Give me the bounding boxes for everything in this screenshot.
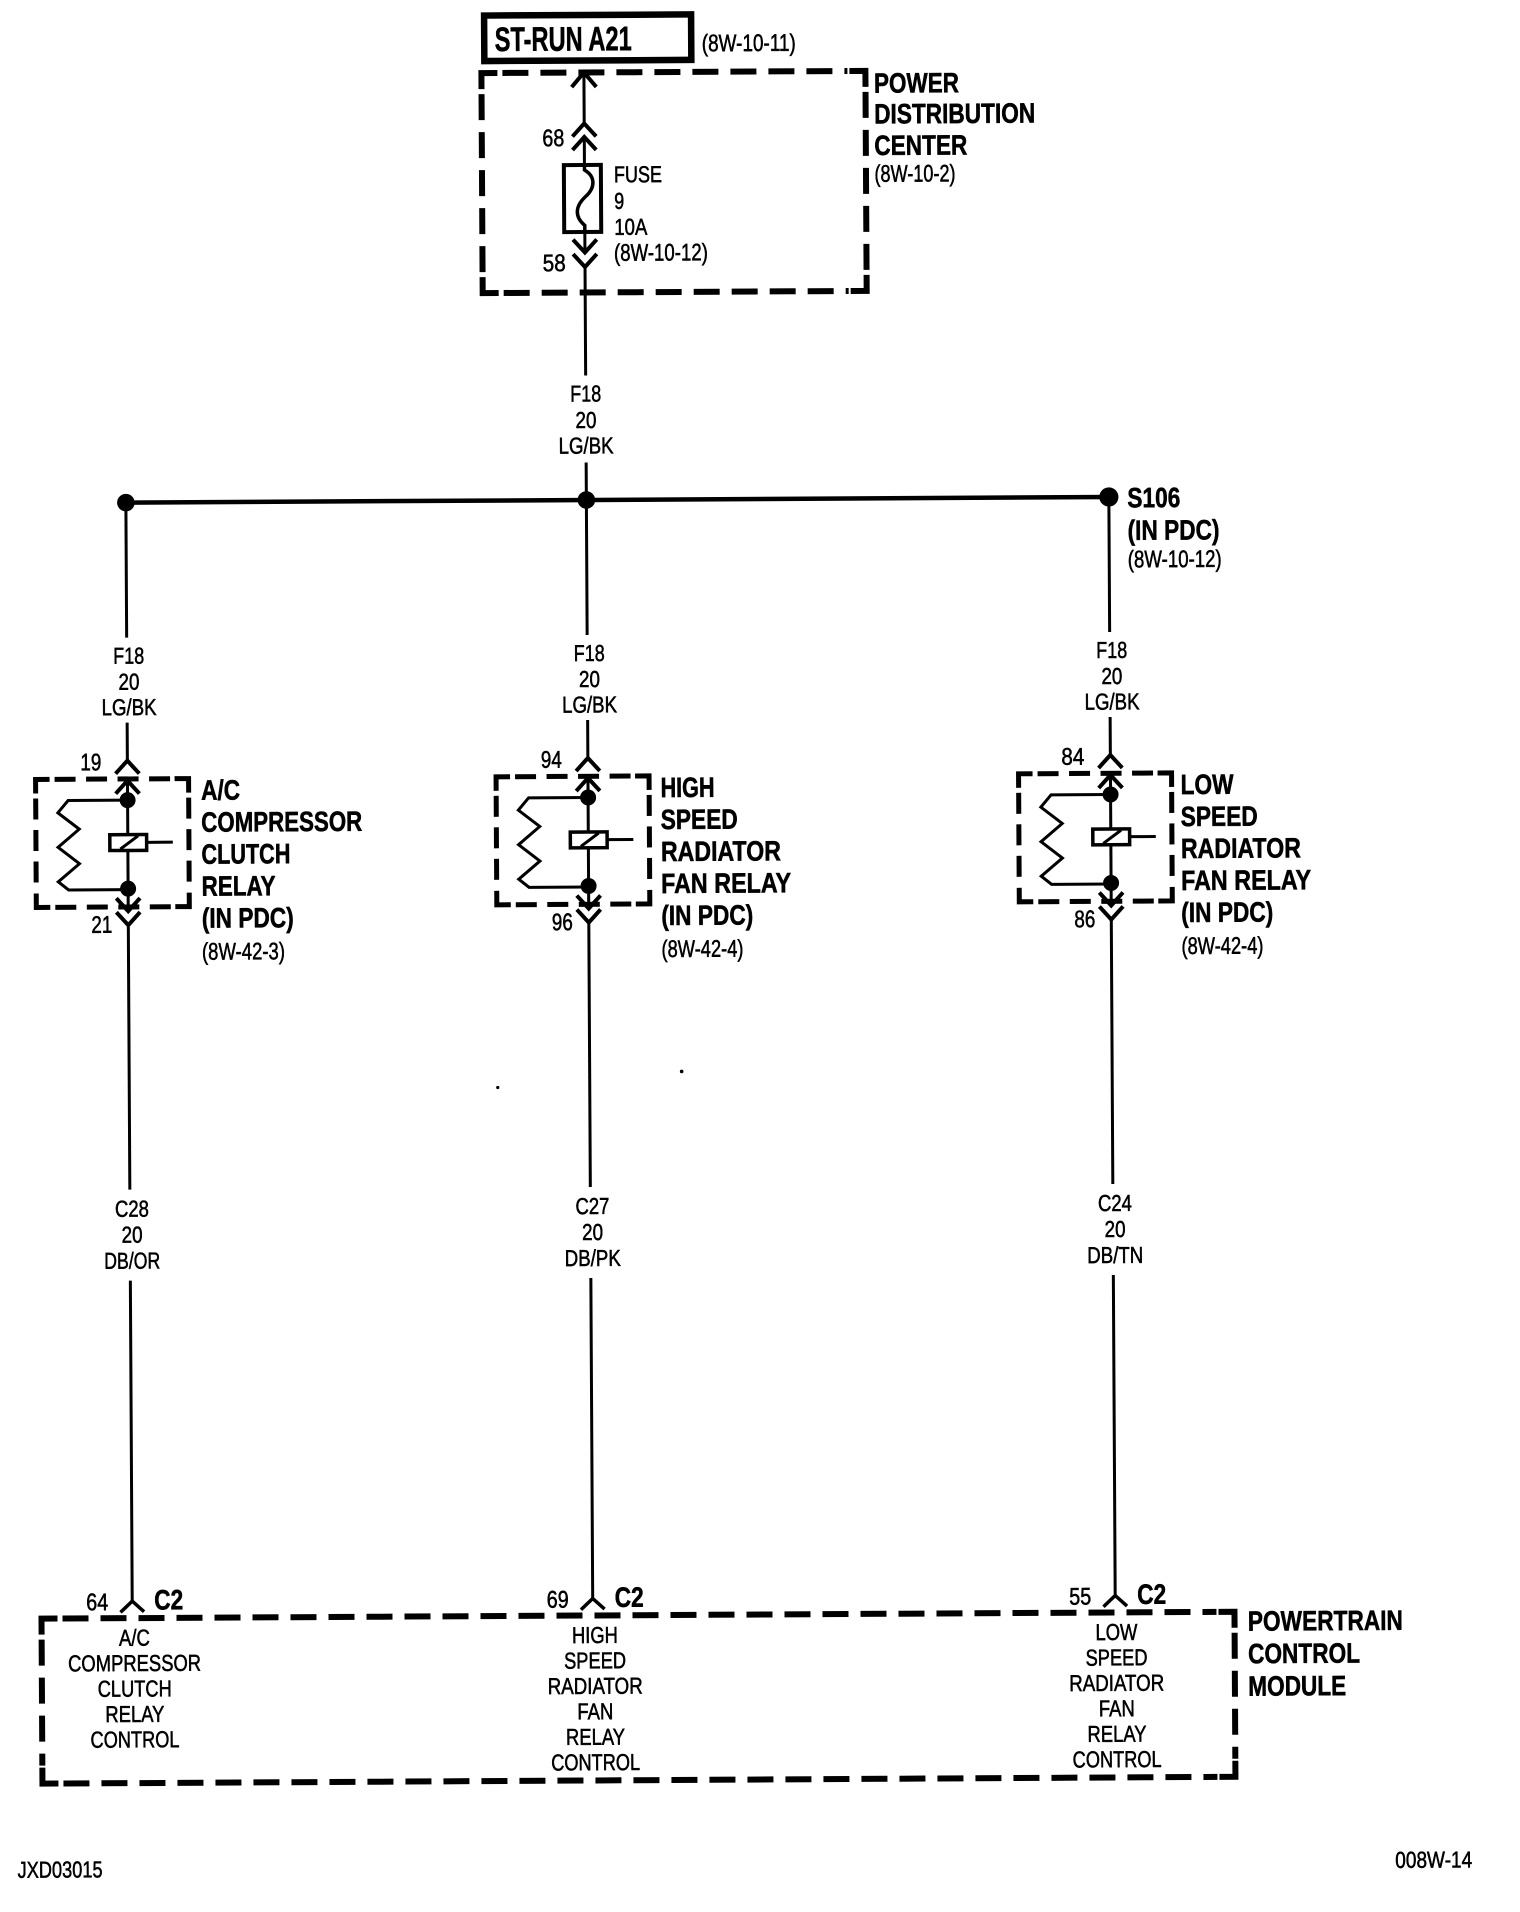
- connector pin 94: [577, 758, 598, 770]
- relay coil lead: [607, 838, 633, 841]
- connector pin 96: [578, 897, 599, 909]
- svg-text:55: 55: [1069, 1584, 1091, 1611]
- junction dot coil bottom: [120, 881, 136, 897]
- wire bus to relay: [585, 500, 589, 635]
- svg-text:MODULE: MODULE: [1248, 1670, 1346, 1702]
- fuse 9 10A: [564, 165, 601, 232]
- svg-text:64: 64: [86, 1589, 108, 1616]
- svg-text:SPEED: SPEED: [1085, 1644, 1147, 1670]
- svg-text:COMPRESSOR: COMPRESSOR: [68, 1650, 201, 1677]
- svg-text:(8W-42-4): (8W-42-4): [661, 936, 743, 963]
- svg-text:(IN PDC): (IN PDC): [202, 902, 294, 934]
- wire to relay lower connector: [127, 889, 130, 911]
- wire to relay connector: [126, 723, 129, 761]
- svg-text:FAN RELAY: FAN RELAY: [661, 867, 791, 899]
- svg-text:RADIATOR: RADIATOR: [1181, 832, 1301, 864]
- svg-text:21: 21: [91, 912, 112, 939]
- relay coil lead: [1130, 835, 1156, 838]
- svg-text:20: 20: [1105, 1216, 1126, 1242]
- svg-text:C2: C2: [1137, 1579, 1166, 1610]
- svg-text:LOW: LOW: [1180, 769, 1234, 800]
- svg-text:A/C: A/C: [201, 774, 240, 805]
- svg-text:94: 94: [541, 747, 562, 774]
- svg-text:LG/BK: LG/BK: [562, 691, 618, 717]
- junction dot coil top: [120, 792, 136, 808]
- svg-text:FAN: FAN: [577, 1698, 613, 1724]
- resistor (relay coil suppression): [58, 800, 128, 890]
- svg-text:69: 69: [547, 1587, 569, 1614]
- wire S106 to relay: [1107, 497, 1111, 632]
- wire to bus: [585, 462, 588, 499]
- connector pin 84: [1100, 755, 1121, 767]
- svg-text:F18: F18: [574, 640, 605, 666]
- wire relay to PCM (lower): [1113, 1275, 1115, 1596]
- connector C2 pin 64: [122, 1601, 143, 1611]
- svg-text:LG/BK: LG/BK: [558, 432, 614, 458]
- svg-text:SPEED: SPEED: [661, 804, 738, 835]
- relay A/C compressor clutch box: [36, 779, 190, 908]
- svg-text:JXD03015: JXD03015: [17, 1856, 102, 1882]
- connector pin 21: [118, 900, 139, 912]
- svg-text:008W-14: 008W-14: [1395, 1846, 1472, 1872]
- svg-text:(IN PDC): (IN PDC): [1181, 897, 1273, 929]
- svg-text:CONTROL: CONTROL: [551, 1749, 640, 1776]
- svg-text:(8W-10-2): (8W-10-2): [874, 160, 955, 187]
- wire bus S106: [126, 497, 1109, 503]
- svg-text:ST-RUN A21: ST-RUN A21: [495, 20, 632, 59]
- svg-text:CLUTCH: CLUTCH: [201, 838, 290, 870]
- connector pin 68 (fuse side): [574, 123, 595, 135]
- wire bus to relay: [124, 503, 128, 638]
- wire coil to pin: [1109, 845, 1112, 883]
- svg-text:POWERTRAIN: POWERTRAIN: [1248, 1605, 1403, 1637]
- junction dot coil bottom: [1103, 875, 1119, 891]
- svg-text:(IN PDC): (IN PDC): [661, 900, 753, 932]
- svg-text:SPEED: SPEED: [564, 1647, 626, 1673]
- svg-text:84: 84: [1061, 744, 1084, 771]
- connector C2 pin 69: [582, 1598, 603, 1608]
- wire to relay lower connector: [587, 886, 590, 908]
- svg-text:RADIATOR: RADIATOR: [661, 835, 781, 867]
- svg-text:LOW: LOW: [1095, 1619, 1137, 1645]
- svg-text:C2: C2: [615, 1582, 644, 1613]
- wire relay to PCM (lower): [591, 1278, 593, 1599]
- svg-text:RADIATOR: RADIATOR: [1069, 1670, 1164, 1697]
- svg-text:20: 20: [582, 1219, 603, 1245]
- svg-text:DB/PK: DB/PK: [565, 1245, 622, 1271]
- svg-text:CLUTCH: CLUTCH: [98, 1675, 172, 1701]
- relay coil lead: [147, 841, 173, 844]
- svg-text:CENTER: CENTER: [874, 129, 967, 161]
- svg-text:(8W-10-12): (8W-10-12): [1128, 546, 1222, 574]
- svg-text:20: 20: [1101, 663, 1122, 689]
- wire relay to PCM (lower): [130, 1281, 132, 1602]
- resistor (relay coil suppression): [518, 797, 588, 887]
- power distribution center box: [481, 71, 866, 293]
- svg-text:10A: 10A: [614, 214, 648, 240]
- svg-text:DB/OR: DB/OR: [104, 1247, 160, 1273]
- svg-text:CONTROL: CONTROL: [1073, 1746, 1162, 1773]
- svg-text:19: 19: [80, 749, 101, 776]
- svg-text:F18: F18: [570, 380, 601, 406]
- svg-text:(8W-10-11): (8W-10-11): [702, 30, 796, 58]
- wire into relay coil: [1109, 775, 1112, 829]
- svg-text:20: 20: [579, 666, 600, 692]
- svg-text:POWER: POWER: [874, 67, 959, 98]
- wire to relay connector (right): [1109, 717, 1112, 755]
- svg-text:86: 86: [1074, 906, 1095, 933]
- svg-text:FUSE: FUSE: [614, 161, 662, 187]
- wire to relay connector: [586, 720, 589, 758]
- relay high speed radiator fan box: [496, 776, 650, 905]
- svg-text:9: 9: [614, 188, 624, 214]
- wire relay to PCM (upper): [589, 922, 591, 1186]
- svg-text:S106: S106: [1127, 482, 1180, 513]
- relay coil high speed radiator fan: [570, 832, 607, 848]
- svg-text:LG/BK: LG/BK: [101, 694, 157, 720]
- resistor (relay coil suppression): [1041, 794, 1111, 884]
- connector C2 pin 55: [1105, 1595, 1126, 1605]
- svg-text:FAN RELAY: FAN RELAY: [1181, 864, 1311, 896]
- svg-text:RELAY: RELAY: [566, 1724, 625, 1750]
- wire fuse to pin 58: [583, 232, 586, 252]
- svg-text:C24: C24: [1098, 1190, 1132, 1216]
- junction dot middle: [578, 491, 596, 509]
- svg-text:20: 20: [118, 669, 139, 695]
- svg-text:SPEED: SPEED: [1181, 801, 1258, 832]
- speck: [496, 1086, 499, 1089]
- junction dot S106: [1099, 487, 1118, 506]
- svg-text:(8W-10-12): (8W-10-12): [614, 239, 708, 267]
- wire into relay coil: [126, 781, 129, 835]
- svg-text:(8W-42-4): (8W-42-4): [1181, 933, 1263, 960]
- node ST-RUN A21 bus box: [484, 14, 691, 61]
- svg-text:HIGH: HIGH: [572, 1622, 618, 1648]
- svg-text:HIGH: HIGH: [660, 772, 714, 803]
- svg-text:RELAY: RELAY: [1087, 1721, 1146, 1747]
- relay low speed radiator fan box: [1019, 773, 1173, 902]
- wire coil to pin: [126, 851, 129, 889]
- svg-text:A/C: A/C: [119, 1625, 150, 1651]
- svg-text:DISTRIBUTION: DISTRIBUTION: [874, 98, 1035, 130]
- svg-text:C28: C28: [115, 1196, 149, 1222]
- junction dot coil top: [580, 789, 596, 805]
- connector pin 19: [117, 761, 138, 773]
- wire coil to pin: [587, 848, 590, 886]
- wire into relay coil: [586, 778, 589, 832]
- connector pin 86: [1101, 894, 1122, 906]
- svg-text:RELAY: RELAY: [105, 1701, 164, 1727]
- svg-text:LG/BK: LG/BK: [1084, 688, 1140, 714]
- svg-text:F18: F18: [1096, 637, 1127, 663]
- svg-text:DB/TN: DB/TN: [1087, 1242, 1143, 1268]
- wire PDC to ST-RUN with arrow: [573, 72, 595, 85]
- svg-text:(8W-42-3): (8W-42-3): [202, 938, 285, 965]
- wire relay to PCM (upper): [1111, 919, 1113, 1183]
- junction dot coil top: [1103, 786, 1119, 802]
- svg-text:RADIATOR: RADIATOR: [548, 1673, 643, 1700]
- svg-text:20: 20: [122, 1222, 143, 1248]
- svg-text:68: 68: [542, 125, 564, 152]
- relay coil low speed radiator fan: [1093, 829, 1130, 845]
- relay coil A/C compressor clutch: [110, 835, 147, 851]
- svg-text:96: 96: [552, 909, 573, 936]
- svg-text:F18: F18: [113, 643, 144, 669]
- junction dot coil bottom: [581, 878, 597, 894]
- svg-text:COMPRESSOR: COMPRESSOR: [201, 806, 362, 838]
- svg-text:C27: C27: [575, 1193, 609, 1219]
- powertrain control module box: [42, 1612, 1236, 1784]
- svg-text:CONTROL: CONTROL: [90, 1726, 179, 1753]
- junction dot left: [117, 494, 135, 512]
- svg-text:(IN PDC): (IN PDC): [1127, 514, 1219, 546]
- svg-text:58: 58: [543, 250, 566, 277]
- svg-text:CONTROL: CONTROL: [1248, 1638, 1360, 1670]
- wire relay to PCM (upper): [128, 925, 130, 1189]
- svg-text:RELAY: RELAY: [201, 870, 275, 901]
- connector pin 58: [574, 241, 595, 253]
- svg-text:C2: C2: [154, 1584, 183, 1615]
- svg-text:20: 20: [575, 407, 596, 433]
- wire to relay lower connector: [1110, 883, 1113, 905]
- svg-text:FAN: FAN: [1099, 1695, 1135, 1721]
